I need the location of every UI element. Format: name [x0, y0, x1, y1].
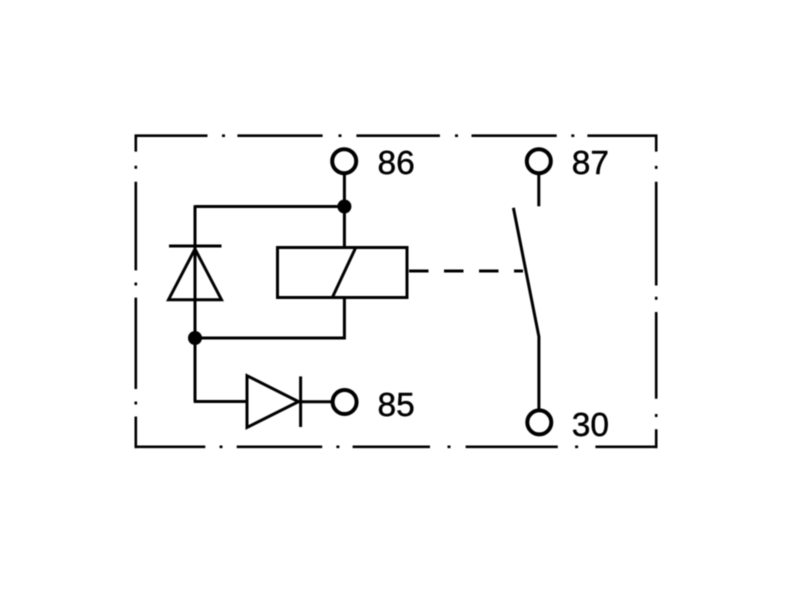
svg-text:87: 87 — [572, 145, 609, 182]
wire: node A left to diode branch — [195, 205, 345, 208]
terminal 86 circle — [332, 149, 356, 173]
svg-text:86: 86 — [378, 145, 415, 182]
relay coil K1 diagonal — [333, 249, 356, 297]
enclosure border bottom (dash-dot) — [135, 445, 658, 448]
wire: left branch down through diode D1 to node B — [194, 205, 197, 338]
terminal 87 circle — [527, 149, 551, 173]
wire: 86 stem down to node A — [343, 175, 346, 207]
relay coil K1 body — [278, 248, 408, 298]
node A junction dot — [337, 200, 351, 214]
wire: node A down into coil top — [343, 207, 346, 248]
diode D2 cathode bar — [299, 376, 302, 427]
svg-text:85: 85 — [378, 387, 415, 424]
enclosure border top (dash-dot) — [135, 134, 658, 137]
enclosure border right (dash-dot) — [655, 135, 658, 449]
wire: node B row right to diode D2 anode — [194, 400, 247, 403]
wire: node B down to diode D2 row — [194, 337, 197, 402]
diode D2 triangle (pointing right) — [247, 376, 299, 428]
diode D1 cathode bar (top) — [169, 245, 222, 248]
mechanical actuator dashed link — [409, 270, 523, 273]
wire: 87 fixed contact stem — [537, 175, 540, 207]
terminal 85 circle — [333, 390, 357, 414]
svg-text:30: 30 — [572, 407, 609, 444]
switch blade (moving contact to terminal 30) — [513, 208, 539, 409]
enclosure border left (dash-dot) — [135, 135, 138, 449]
diode D1 triangle (pointing up) — [169, 249, 222, 300]
wire: coil bottom down then left to node B — [195, 298, 344, 339]
node B junction dot — [188, 331, 202, 345]
terminal 30 circle — [527, 410, 551, 434]
wire: diode D2 to terminal 85 — [301, 400, 332, 403]
